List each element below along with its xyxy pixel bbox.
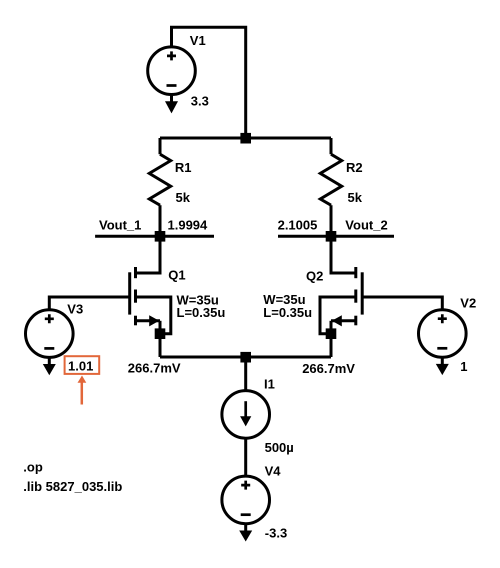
svg-text:1.01: 1.01: [68, 358, 93, 373]
svg-text:1.9994: 1.9994: [168, 217, 209, 232]
svg-text:266.7mV: 266.7mV: [128, 361, 181, 376]
svg-text:V2: V2: [460, 296, 476, 311]
svg-text:Q1: Q1: [168, 267, 185, 282]
svg-text:5k: 5k: [176, 190, 191, 205]
svg-text:L=0.35u: L=0.35u: [177, 305, 226, 320]
svg-text:V1: V1: [190, 33, 206, 48]
svg-text:R2: R2: [346, 160, 363, 175]
svg-text:I1: I1: [264, 377, 275, 392]
svg-text:1: 1: [460, 359, 467, 374]
svg-text:L=0.35u: L=0.35u: [263, 305, 312, 320]
svg-text:.lib 5827_035.lib: .lib 5827_035.lib: [23, 479, 122, 494]
svg-text:3.3: 3.3: [191, 93, 209, 108]
svg-text:2.1005: 2.1005: [278, 218, 318, 233]
svg-text:Vout_2: Vout_2: [345, 218, 387, 233]
svg-text:V4: V4: [265, 463, 282, 478]
svg-text:Q2: Q2: [306, 269, 323, 284]
svg-text:5k: 5k: [348, 190, 363, 205]
svg-text:500µ: 500µ: [265, 440, 294, 455]
svg-text:R1: R1: [175, 160, 192, 175]
svg-text:V3: V3: [67, 301, 83, 316]
svg-text:Vout_1: Vout_1: [99, 217, 141, 232]
svg-text:-3.3: -3.3: [265, 526, 287, 541]
svg-text:266.7mV: 266.7mV: [302, 361, 355, 376]
svg-text:.op: .op: [23, 460, 43, 475]
